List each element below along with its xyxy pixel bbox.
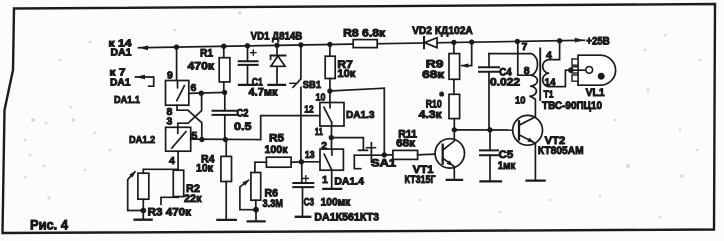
svg-text:8: 8 bbox=[524, 65, 530, 77]
resistor R7 bbox=[325, 44, 335, 102]
resistor R10 bbox=[449, 79, 460, 130]
node SA1 bbox=[382, 152, 387, 157]
wire pin 7 to tap bbox=[518, 42, 530, 76]
R3 wiper bbox=[128, 171, 144, 211]
label 4.7мк bbox=[249, 87, 278, 99]
pushbutton SB1 bbox=[290, 45, 301, 162]
label 100к bbox=[265, 144, 288, 156]
label C2 bbox=[237, 107, 249, 119]
pin 1 label bbox=[322, 174, 328, 186]
capacitor C3 bbox=[293, 162, 313, 216]
capacitor C1 bbox=[239, 46, 258, 85]
ground C1 bbox=[239, 84, 257, 86]
label C4 bbox=[499, 66, 512, 78]
VL1 cathode circle bbox=[586, 67, 593, 74]
svg-text:4.7мк: 4.7мк bbox=[249, 87, 278, 99]
potentiometer R6 bbox=[251, 173, 261, 210]
SA1 hook bbox=[354, 155, 360, 169]
ground C5 bbox=[481, 180, 502, 182]
ground VT2 bbox=[527, 179, 545, 181]
node rail-R9 bbox=[451, 40, 456, 45]
pin 8 label bbox=[524, 65, 530, 77]
diode VD2 bbox=[424, 37, 437, 48]
ground VD1 bbox=[269, 84, 286, 86]
label VD1 Д814В bbox=[251, 30, 303, 42]
svg-text:1: 1 bbox=[322, 174, 328, 186]
node rail-pin7 bbox=[515, 39, 520, 44]
op-switch DA1.4 bbox=[320, 149, 343, 170]
pin 4 label bbox=[169, 155, 175, 167]
node pin13 bbox=[299, 159, 304, 164]
wire pin 4 bbox=[549, 41, 559, 60]
label R8 6.8к bbox=[343, 28, 386, 40]
label DA1 К561КТ3 bbox=[314, 212, 379, 224]
wire pin4 to R3 bbox=[143, 168, 178, 170]
label R11 bbox=[398, 129, 417, 141]
svg-text:КТ805АМ: КТ805АМ bbox=[538, 145, 584, 157]
zener VD1 bbox=[271, 45, 286, 84]
label R9 68к bbox=[422, 69, 444, 81]
SA1 moving contact bbox=[366, 143, 375, 163]
label R9 bbox=[426, 59, 444, 71]
wire SA1 common bbox=[354, 154, 384, 156]
label R7 bbox=[337, 59, 352, 71]
arrow +25V bbox=[575, 38, 585, 43]
node rail-R1 bbox=[221, 44, 226, 49]
pin 10 label DA1.3 bbox=[316, 91, 326, 103]
transistor VT1 bbox=[435, 130, 464, 178]
pin 10 label bbox=[515, 94, 526, 106]
ground C3 bbox=[296, 216, 310, 218]
pin 12 label bbox=[304, 104, 313, 116]
transistor VT2 bbox=[513, 96, 543, 179]
label к 14 DA1 bbox=[109, 37, 132, 58]
label R3 470к bbox=[148, 207, 192, 219]
label КТ805АМ bbox=[538, 145, 584, 157]
ground R6 bbox=[248, 210, 265, 222]
node rail-VD1 bbox=[274, 43, 279, 48]
wire pin 14 to VL1 bbox=[549, 70, 571, 86]
wire to pin 7 of DA1 bbox=[136, 75, 154, 87]
label R6 bbox=[265, 188, 279, 200]
svg-text:VL1: VL1 bbox=[586, 87, 605, 99]
svg-text:7: 7 bbox=[522, 41, 528, 53]
svg-text:R3 470к: R3 470к bbox=[148, 207, 192, 219]
wire pin 11 to pin 2 bbox=[331, 126, 333, 149]
node pin5-a bbox=[199, 137, 204, 142]
label R1 bbox=[200, 47, 213, 59]
T1 secondary winding bbox=[543, 60, 550, 87]
svg-text:С3: С3 bbox=[304, 197, 315, 209]
label VT2 bbox=[545, 135, 566, 147]
svg-text:5: 5 bbox=[192, 130, 198, 142]
op-switch DA1.1 bbox=[166, 81, 189, 106]
svg-text:DA1: DA1 bbox=[111, 47, 132, 59]
wire top supply rail bbox=[139, 40, 585, 47]
wire pin11 node to SA1 bbox=[331, 138, 363, 149]
wire R7 node to SA1 branch bbox=[330, 88, 384, 155]
svg-text:68к: 68к bbox=[396, 138, 415, 150]
svg-text:DA1: DA1 bbox=[110, 77, 131, 89]
label DA1.1 bbox=[114, 94, 140, 106]
svg-text:VD2 КД102А: VD2 КД102А bbox=[412, 25, 473, 37]
SA1 contact dash bbox=[359, 149, 368, 151]
node rail-SB1 bbox=[298, 42, 303, 47]
label R5 bbox=[269, 133, 284, 145]
label КТ315Г bbox=[405, 174, 437, 186]
svg-text:13: 13 bbox=[305, 149, 315, 161]
svg-text:4.3к: 4.3к bbox=[419, 109, 443, 121]
wire pin 8 to cross bbox=[177, 105, 202, 139]
svg-text:R1: R1 bbox=[200, 47, 213, 59]
resistor R11 bbox=[384, 150, 442, 159]
resistor R2 bbox=[161, 169, 184, 204]
T1 primary winding bbox=[530, 54, 537, 97]
svg-text:С5: С5 bbox=[499, 149, 514, 161]
svg-text:ТВС-90ПЦ10: ТВС-90ПЦ10 bbox=[542, 100, 602, 112]
svg-text:С2: С2 bbox=[237, 107, 249, 119]
pin 4 label bbox=[546, 50, 552, 62]
label R11 68к bbox=[396, 138, 415, 150]
wire C4 top to T1 winding top bbox=[489, 53, 530, 55]
node VT1 collector bbox=[452, 127, 457, 132]
svg-text:12: 12 bbox=[304, 104, 313, 116]
lamp VL1 body bbox=[578, 55, 616, 85]
label DA1.3 bbox=[346, 109, 375, 121]
T1 core bbox=[539, 49, 541, 101]
ground R4 bbox=[217, 219, 235, 221]
op-switch DA1.2 bbox=[166, 127, 191, 151]
pin 3 label bbox=[167, 116, 173, 128]
svg-text:22к: 22к bbox=[184, 193, 202, 205]
svg-text:DA1.2: DA1.2 bbox=[129, 134, 155, 146]
R6 wiper bbox=[240, 179, 256, 209]
potentiometer R3 bbox=[138, 169, 149, 218]
pin 13 label bbox=[305, 149, 315, 161]
label VT1 bbox=[413, 164, 434, 176]
wire pin 1 ground bbox=[323, 170, 341, 189]
svg-text:DA1.3: DA1.3 bbox=[346, 109, 375, 121]
node R6 bbox=[253, 207, 259, 213]
svg-text:10: 10 bbox=[515, 94, 526, 106]
node rail-T1sec bbox=[557, 38, 562, 43]
label C1 bbox=[252, 77, 263, 89]
label +25В bbox=[586, 35, 610, 47]
svg-text:КТ315Г: КТ315Г bbox=[405, 174, 437, 186]
svg-text:0.022: 0.022 bbox=[490, 77, 520, 89]
node rail-pin9 bbox=[174, 44, 179, 49]
node pin6-a bbox=[199, 91, 204, 96]
op-switch DA1.3 bbox=[320, 103, 344, 127]
label 470к bbox=[188, 60, 215, 72]
wire C2 bus to pin 12 bbox=[261, 116, 320, 140]
svg-text:VD1 Д814В: VD1 Д814В bbox=[251, 30, 303, 42]
pin 6 label bbox=[191, 82, 197, 94]
label SA1 bbox=[371, 158, 396, 170]
svg-text:3: 3 bbox=[167, 116, 173, 128]
capacitor C4 bbox=[479, 54, 499, 130]
svg-text:68к: 68к bbox=[422, 69, 444, 81]
pin 11 label bbox=[315, 126, 323, 138]
svg-text:R8 6.8к: R8 6.8к bbox=[343, 28, 386, 40]
label SB1 bbox=[303, 79, 322, 91]
pin 7 label bbox=[522, 41, 528, 53]
resistor R4 bbox=[221, 140, 232, 219]
label DA1.2 bbox=[129, 134, 155, 146]
label DA1.4 bbox=[334, 175, 364, 187]
resistor R5 bbox=[266, 157, 301, 167]
capacitor C5 bbox=[480, 130, 498, 181]
wire VL1 electrode bbox=[571, 69, 586, 71]
label VD2 КД102А bbox=[412, 25, 473, 37]
label R4 bbox=[201, 154, 215, 166]
wire pin 6 bbox=[189, 92, 225, 93]
arrow to pin 14 of DA1 bbox=[139, 46, 149, 51]
label 0.022 bbox=[490, 77, 520, 89]
node rail-R7 bbox=[327, 42, 332, 47]
svg-text:SB1: SB1 bbox=[303, 79, 322, 91]
node R3 bbox=[140, 208, 146, 214]
pin 14 label bbox=[545, 76, 556, 88]
svg-text:R5: R5 bbox=[269, 133, 284, 145]
node VL1 bbox=[568, 67, 574, 73]
node pin11 bbox=[329, 135, 334, 140]
svg-text:3.3М: 3.3М bbox=[263, 198, 284, 210]
wire SA1 node down bbox=[0, 0, 1, 1]
svg-text:DA1.4: DA1.4 bbox=[334, 175, 364, 187]
svg-text:11: 11 bbox=[315, 126, 323, 138]
wire pin 9 lead bbox=[176, 47, 178, 80]
svg-text:10к: 10к bbox=[337, 68, 355, 80]
label C5 bbox=[499, 149, 514, 161]
svg-text:0.5: 0.5 bbox=[234, 121, 252, 133]
node pin5-b bbox=[223, 137, 228, 142]
label к 7 DA1 bbox=[110, 66, 131, 88]
R9 wiper bbox=[460, 39, 474, 67]
wire R5 left to R6 bbox=[255, 162, 267, 172]
node pin6-b bbox=[222, 90, 227, 95]
svg-text:470к: 470к bbox=[188, 60, 215, 72]
trimmer R9 bbox=[449, 42, 460, 79]
svg-text:*: * bbox=[440, 91, 445, 103]
svg-text:10к: 10к bbox=[196, 163, 213, 175]
label T1 bbox=[544, 89, 554, 101]
VL1 pin tabs bbox=[572, 59, 578, 81]
label 0.5 bbox=[234, 121, 252, 133]
svg-text:Т1: Т1 bbox=[544, 89, 554, 101]
svg-text:100мк: 100мк bbox=[321, 197, 351, 209]
pin 9 label bbox=[167, 70, 173, 82]
ground VT1 bbox=[447, 179, 462, 181]
svg-text:10: 10 bbox=[316, 91, 326, 103]
label R10* bbox=[426, 91, 445, 111]
svg-text:DA1К561КТ3: DA1К561КТ3 bbox=[314, 212, 379, 224]
label C3 bbox=[304, 197, 315, 209]
node R7-pin10 bbox=[327, 88, 332, 93]
pin 8 label bbox=[167, 106, 173, 118]
label R2 bbox=[186, 183, 200, 195]
pin 2 label bbox=[321, 140, 327, 152]
wire pin6 node to cross bbox=[178, 93, 202, 127]
label 3.3М bbox=[263, 198, 284, 210]
label 100мк bbox=[321, 197, 351, 209]
svg-text:DA1.1: DA1.1 bbox=[114, 94, 140, 106]
resistor R1 bbox=[219, 46, 230, 92]
label Рис. 4 bbox=[30, 218, 68, 233]
svg-text:1мк: 1мк bbox=[498, 160, 516, 172]
label 22к bbox=[184, 193, 202, 205]
wire pin 5 bus bbox=[191, 138, 261, 141]
node rail-C1 bbox=[245, 43, 250, 48]
label 1мк bbox=[498, 160, 516, 172]
wire pin 4 bbox=[177, 151, 179, 170]
label R4 10к bbox=[196, 163, 213, 175]
wire pin 13 bbox=[301, 161, 320, 163]
svg-text:4: 4 bbox=[169, 155, 175, 167]
wire base node bus bbox=[454, 129, 519, 131]
node C4-C5 bbox=[487, 127, 492, 132]
label VL1 bbox=[586, 87, 605, 99]
svg-text:Рис. 4: Рис. 4 bbox=[30, 218, 68, 233]
svg-text:+25В: +25В bbox=[586, 35, 610, 47]
label 4.3к bbox=[419, 109, 443, 121]
capacitor C2 bbox=[213, 92, 237, 139]
ground R3 bbox=[135, 219, 152, 221]
resistor R8 bbox=[353, 40, 377, 48]
label R7 10к bbox=[337, 68, 355, 80]
pin 5 label bbox=[192, 130, 198, 142]
label ТВС-90ПЦ10 bbox=[542, 100, 602, 112]
VL1 anode dot bbox=[598, 73, 605, 80]
svg-text:100к: 100к bbox=[265, 144, 288, 156]
